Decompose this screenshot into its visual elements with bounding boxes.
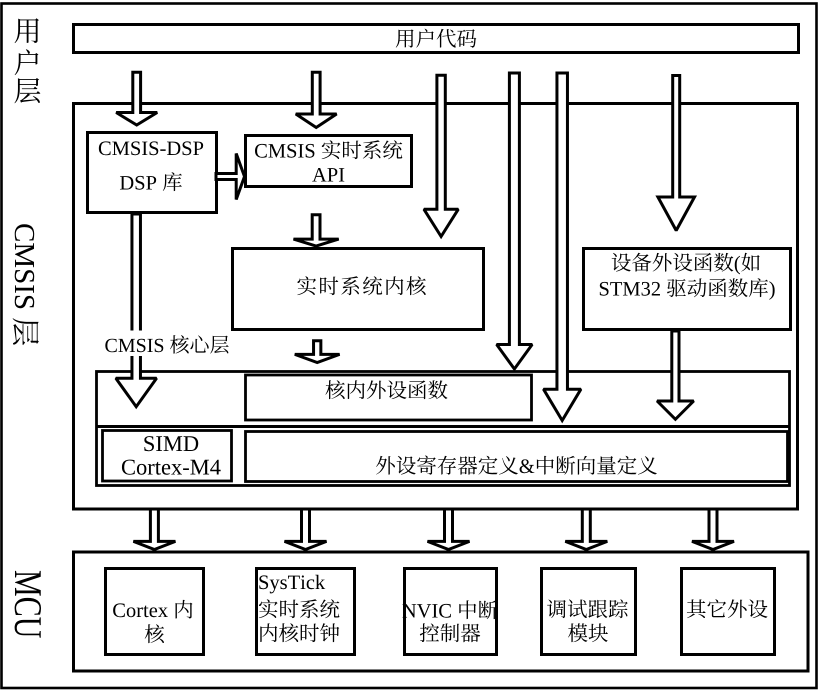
text 其它外设 [687, 599, 768, 618]
box Cortex 内核 [106, 569, 204, 655]
arrow 用户代码→CMSIS-DSP [116, 72, 157, 125]
text DSP 库 line2 [120, 172, 182, 191]
text CMSIS 实时系统 [255, 140, 402, 159]
box 核内外设函数 (core peripheral functions) [246, 375, 532, 420]
box 实时系统内核 (RTOS kernel) [233, 249, 484, 330]
box CMSIS-DSP [88, 133, 217, 213]
white backing for CMSIS 核心层 label [103, 331, 230, 357]
arrow 用户代码→实时系统内核 [424, 75, 458, 236]
text 设备外设函数(如 [612, 253, 760, 275]
arrow 用户代码→CMSIS RTOS API [296, 72, 337, 127]
box CMSIS RTOS API [246, 136, 412, 187]
text 外设寄存器定义&中断向量定义 [376, 455, 657, 474]
box 其它外设 [682, 569, 775, 655]
arrow CMSIS-DSP→SIMD (CMSIS core) [116, 214, 157, 407]
text 实时系统内核 [297, 276, 425, 295]
arrow CMSIS→SysTick [285, 509, 327, 550]
text CMSIS-DSP line1 [99, 141, 203, 155]
arrow CMSIS→其它外设 [692, 509, 734, 550]
text NVIC 中断 [402, 600, 497, 619]
text 调试跟踪 [547, 599, 628, 618]
text 控制器 [420, 623, 480, 642]
box 用户代码 (user code) [74, 25, 799, 53]
text CMSIS 核心层 [105, 335, 228, 354]
divider inner container [97, 425, 790, 428]
arrow 实时系统内核→核内外设函数 [295, 341, 340, 363]
arrow 用户代码→设备外设函数 [658, 76, 695, 231]
box 设备外设函数 (device peripheral functions) [584, 249, 791, 330]
text SysTick [259, 575, 325, 594]
text SIMD [144, 436, 198, 451]
arrow 设备外设函数→外设寄存器定义 [657, 331, 694, 419]
box SysTick [257, 569, 355, 655]
text 核内外设函数 [325, 380, 447, 399]
label CMSIS 层 (rotated) [13, 224, 39, 345]
text STM32 驱动函数库) [600, 278, 775, 300]
box CMSIS layer container [74, 104, 798, 510]
box inner container (core layer) [97, 372, 790, 486]
text Cortex 内 [113, 600, 192, 619]
label MCU (rotated) [15, 571, 41, 638]
label 用户层 char 3 [14, 78, 40, 103]
box 调试跟踪模块 [542, 569, 636, 655]
label 用户层 char 2 [15, 49, 39, 75]
box SIMD Cortex-M4 [103, 431, 232, 482]
text Cortex-M4 [122, 460, 221, 475]
arrow CMSIS→调试跟踪 [565, 509, 607, 550]
box MCU container [74, 552, 809, 671]
arrow 用户代码→核内外设函数 (long) [497, 73, 533, 369]
text 用户代码 [396, 29, 477, 48]
box NVIC 中断控制器 [405, 569, 497, 655]
text 实时系统 (SysTick) [259, 599, 340, 618]
arrow API→实时系统内核 [294, 215, 339, 246]
text 内核时钟 (SysTick) [260, 623, 339, 642]
arrow 用户代码→外设寄存器定义 (long) [544, 73, 581, 421]
text 模块 [568, 623, 608, 642]
text 核 [145, 624, 164, 643]
arrow CMSIS→NVIC [428, 509, 470, 550]
arrow CMSIS-DSP→API [216, 154, 245, 200]
label 用户层 (user layer) [15, 18, 39, 43]
arrow CMSIS→Cortex内核 [133, 509, 175, 550]
box 外设寄存器定义&中断向量定义 [246, 432, 788, 482]
text API [312, 168, 344, 182]
